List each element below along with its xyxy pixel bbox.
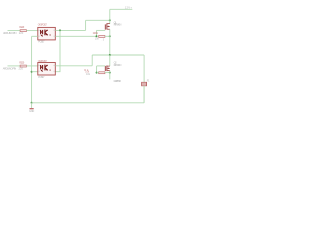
junction R4 source node (109, 72, 111, 74)
wire ground stub down (31, 103, 33, 108)
wire node A horizontal (92, 54, 144, 56)
wire cathode ground rail vertical (31, 36, 33, 103)
wire input channel 1 from Arduino pin (8, 30, 21, 32)
transistor Q1 IRF540N (105, 23, 110, 29)
wire Q2 source stub to GND net (109, 71, 111, 80)
junction R2 source node (109, 35, 111, 37)
junction gate node channel 2 (96, 72, 98, 74)
optocoupler OK1 body (38, 27, 56, 40)
wire OK1 cathode stub (32, 35, 38, 37)
OK2 internal LED and phototransistor symbol (41, 65, 51, 72)
wire OK1 emitter to gate node (55, 35, 96, 37)
wire OK2 collector to jog (55, 65, 92, 67)
svg-text:F1: F1 (147, 80, 150, 83)
wire fuse to ground rail (143, 86, 145, 103)
junction collector branch node (59, 29, 61, 31)
fuse F1 element line (142, 83, 147, 85)
resistor R1 (20, 30, 26, 32)
svg-text:10k: 10k (95, 38, 100, 41)
svg-text:OK2 PC817: OK2 PC817 (38, 60, 48, 63)
wire collector jog up channel 1 (85, 20, 87, 30)
junction OK2 cathode (31, 71, 33, 73)
wire node A down right side to fuse (143, 55, 145, 103)
svg-text:R2 10k: R2 10k (93, 32, 99, 35)
wire branch down from collector to OK2 pin (55, 30, 60, 71)
fuse F1 body (142, 82, 147, 86)
svg-text:R3 220: R3 220 (19, 62, 25, 65)
optocoupler OK2 body (38, 63, 56, 76)
svg-text:ARDUINO PIN: ARDUINO PIN (3, 31, 17, 35)
wire R3 to optocoupler OK2 (26, 65, 37, 67)
svg-text:12V+: 12V+ (125, 6, 133, 10)
wire gate channel 1 (97, 29, 106, 31)
junction node A drain channel 2 (109, 54, 111, 56)
wire OK1 collector to jog (55, 29, 85, 31)
transistor Q2 IRF540N mirrored (105, 66, 110, 72)
svg-text:.3: .3 (102, 40, 105, 42)
svg-text:IRF540N: IRF540N (114, 63, 122, 67)
junction gate node channel 1 (96, 35, 98, 37)
wire drain node up (109, 9, 111, 20)
wire R1 to optocoupler OK1 (26, 30, 37, 32)
OK2 pin name marks (39, 65, 55, 72)
junction ground rail left (31, 102, 33, 104)
wire R4 line left stub (97, 72, 99, 74)
wire input channel 2 from Arduino pin (8, 65, 21, 67)
wire collector jog up channel 2 (91, 55, 93, 66)
wire OK2 cathode stub (32, 71, 38, 73)
svg-text:IRF540N: IRF540N (114, 23, 122, 27)
svg-text:10k: 10k (86, 73, 91, 76)
wire drain stub to Q1 (109, 20, 111, 24)
junction drain node channel 1 (109, 19, 111, 21)
svg-text:PC817: PC817 (38, 75, 45, 79)
ground symbol GND (30, 108, 34, 109)
wire ground rail bottom (32, 102, 145, 104)
wire to drain node channel 1 (86, 19, 110, 21)
wire gate channel 2 (97, 65, 106, 67)
OK1 pin name marks (39, 30, 55, 37)
wire to net 12V top right (110, 8, 133, 10)
wire drain stub to Q2 (109, 55, 111, 66)
svg-text:OK1 PC817: OK1 PC817 (38, 24, 48, 27)
wire gate jog down channel 1 (96, 30, 98, 36)
svg-text:R1 220: R1 220 (19, 26, 25, 29)
svg-text:ARDUINO PIN: ARDUINO PIN (3, 67, 17, 71)
svg-text:PC817: PC817 (38, 40, 45, 44)
wire R4 to source node (105, 72, 110, 74)
svg-text:GND: GND (29, 109, 34, 113)
wire gate jog down channel 2 (96, 66, 98, 73)
wire Q1 source down to node A (109, 29, 111, 55)
resistor R3 (20, 65, 26, 67)
svg-text:GNDPWR: GNDPWR (114, 79, 122, 83)
wire R2 to source node (105, 35, 110, 37)
OK1 internal LED and phototransistor symbol (41, 30, 51, 37)
resistor R2 gate pulldown (99, 36, 105, 38)
resistor R4 gate pulldown (99, 72, 105, 74)
